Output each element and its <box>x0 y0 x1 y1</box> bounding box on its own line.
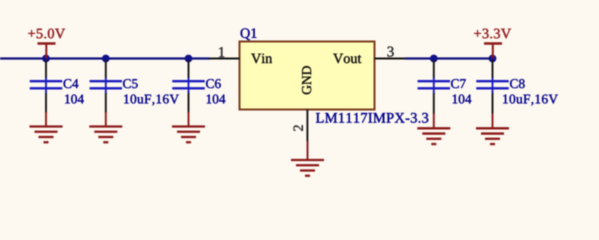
junction at C4 <box>42 55 50 63</box>
capacitor C7 <box>418 60 451 114</box>
pin 2 (GND) stub <box>306 110 308 142</box>
designator C8 <box>510 79 525 88</box>
pin 1 (Vin) wire stub <box>209 58 240 60</box>
junction at C7 <box>430 55 438 63</box>
designator C5 <box>123 79 138 88</box>
capacitor C6 <box>172 60 205 113</box>
wire input net from +5.0V <box>0 57 210 59</box>
ground at C6 <box>172 112 205 142</box>
pin number 3 <box>387 47 393 57</box>
designator C4 <box>64 79 79 88</box>
designator C7 <box>451 79 466 88</box>
junction at C8 <box>489 55 497 63</box>
value 104 of C6 <box>207 94 226 103</box>
pin number 1 <box>219 47 224 57</box>
capacitor C8 <box>476 60 509 114</box>
junction at C5 <box>102 55 110 63</box>
value 10uF,16V of C8 <box>503 94 558 105</box>
value 104 of C4 <box>65 94 84 103</box>
value 104 of C7 <box>453 94 472 103</box>
power port +3.3V <box>484 43 502 59</box>
pin name Vin <box>251 54 272 64</box>
ground at C7 <box>417 114 450 145</box>
comment LM1117IMPX-3.3 <box>316 113 428 123</box>
ground at C8 <box>476 114 509 145</box>
value 10uF,16V of C5 <box>124 94 179 105</box>
pin name GND <box>302 66 311 94</box>
net label +5.0V <box>28 29 65 39</box>
ground at C4 <box>30 112 63 142</box>
regulator Q1 body (LM1117) <box>240 42 375 110</box>
junction at C6 <box>185 55 193 63</box>
designator Q1 <box>241 28 257 40</box>
ground at C5 <box>89 112 122 142</box>
net label +3.3V <box>474 29 511 39</box>
ground at pin 2 <box>291 141 324 176</box>
pin name Vout <box>333 54 361 64</box>
power port +5.0V <box>38 43 56 59</box>
capacitor C5 <box>90 60 123 113</box>
wire output net +3.3V <box>405 57 494 59</box>
designator C6 <box>206 79 221 88</box>
capacitor C4 <box>30 60 63 113</box>
pin 3 (Vout) wire stub <box>375 58 407 60</box>
pin number 2 <box>294 125 303 131</box>
